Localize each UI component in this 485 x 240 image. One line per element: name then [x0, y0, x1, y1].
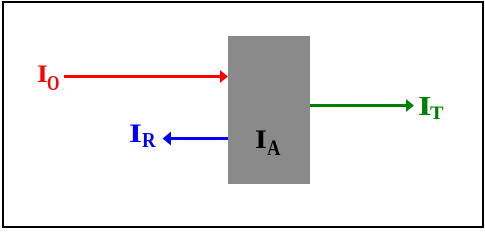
label I_O (incident intensity, red): [37, 62, 48, 87]
label I_T (transmitted intensity, green): [418, 93, 431, 120]
label I_A (absorbed intensity, black): [255, 127, 267, 153]
absorber block (gray slab): [228, 36, 310, 184]
wire: reflected ray shaft (blue): [170, 137, 228, 140]
arrowhead: reflected ray tip (blue): [163, 132, 171, 146]
label I_R (reflected intensity, blue): [129, 121, 142, 147]
arrowhead: incident ray tip (red): [220, 70, 228, 83]
arrowhead: transmitted ray tip (green): [406, 99, 414, 112]
wire: transmitted ray shaft (green): [310, 104, 407, 107]
wire: incident ray shaft (red): [64, 75, 221, 78]
